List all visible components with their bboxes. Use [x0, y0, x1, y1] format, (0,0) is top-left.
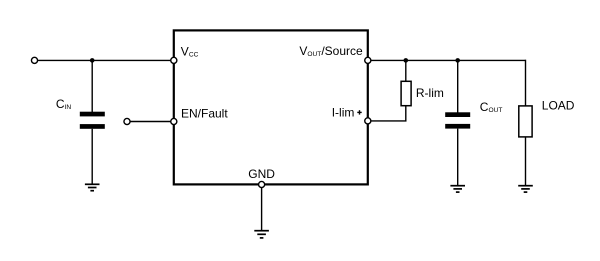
node: CIN junction dot	[90, 58, 95, 63]
wire: junction down to COUT	[457, 60, 459, 112]
wire: R-lim bottom to I-lim pin	[371, 106, 406, 121]
ground (below LOAD)	[518, 186, 533, 192]
ground (below CIN)	[85, 184, 100, 190]
svg-text:LOAD: LOAD	[542, 98, 575, 112]
node: R-lim junction dot	[404, 58, 409, 63]
wire: junction down to CIN	[91, 60, 93, 112]
svg-text:R-lim: R-lim	[416, 86, 444, 100]
capacitor C_OUT	[445, 112, 470, 128]
pin VCC	[171, 57, 177, 63]
resistor LOAD box	[519, 106, 532, 137]
wire: input terminal to VCC pin	[37, 59, 171, 61]
wire: CIN to ground	[91, 129, 93, 185]
svg-text:GND: GND	[248, 167, 275, 181]
resistor R-lim	[401, 81, 411, 105]
node: COUT junction dot	[455, 58, 460, 63]
wire: COUT to ground	[457, 129, 459, 186]
wire: corner down to LOAD	[525, 60, 527, 106]
IC U1 body	[174, 30, 368, 184]
pin GND	[259, 181, 265, 187]
capacitor C_IN	[80, 112, 105, 129]
EN input terminal (open circle)	[124, 118, 130, 124]
pin I-lim	[365, 118, 371, 124]
svg-text:I-lim: I-lim	[332, 105, 355, 119]
wire: junction down to R-lim	[405, 60, 407, 81]
wire: GND pin to ground	[261, 188, 263, 231]
pin VOUT/Source	[365, 57, 371, 63]
wire: LOAD to ground	[525, 137, 527, 186]
pin EN/Fault	[171, 118, 177, 124]
ground (below GND pin)	[254, 231, 269, 238]
wire: VOUT to LOAD corner	[371, 59, 526, 61]
svg-text:EN/Fault: EN/Fault	[181, 106, 228, 120]
input terminal (open circle)	[31, 57, 37, 63]
wire: EN terminal to EN/Fault pin	[130, 121, 171, 123]
ground (below COUT)	[450, 186, 465, 192]
